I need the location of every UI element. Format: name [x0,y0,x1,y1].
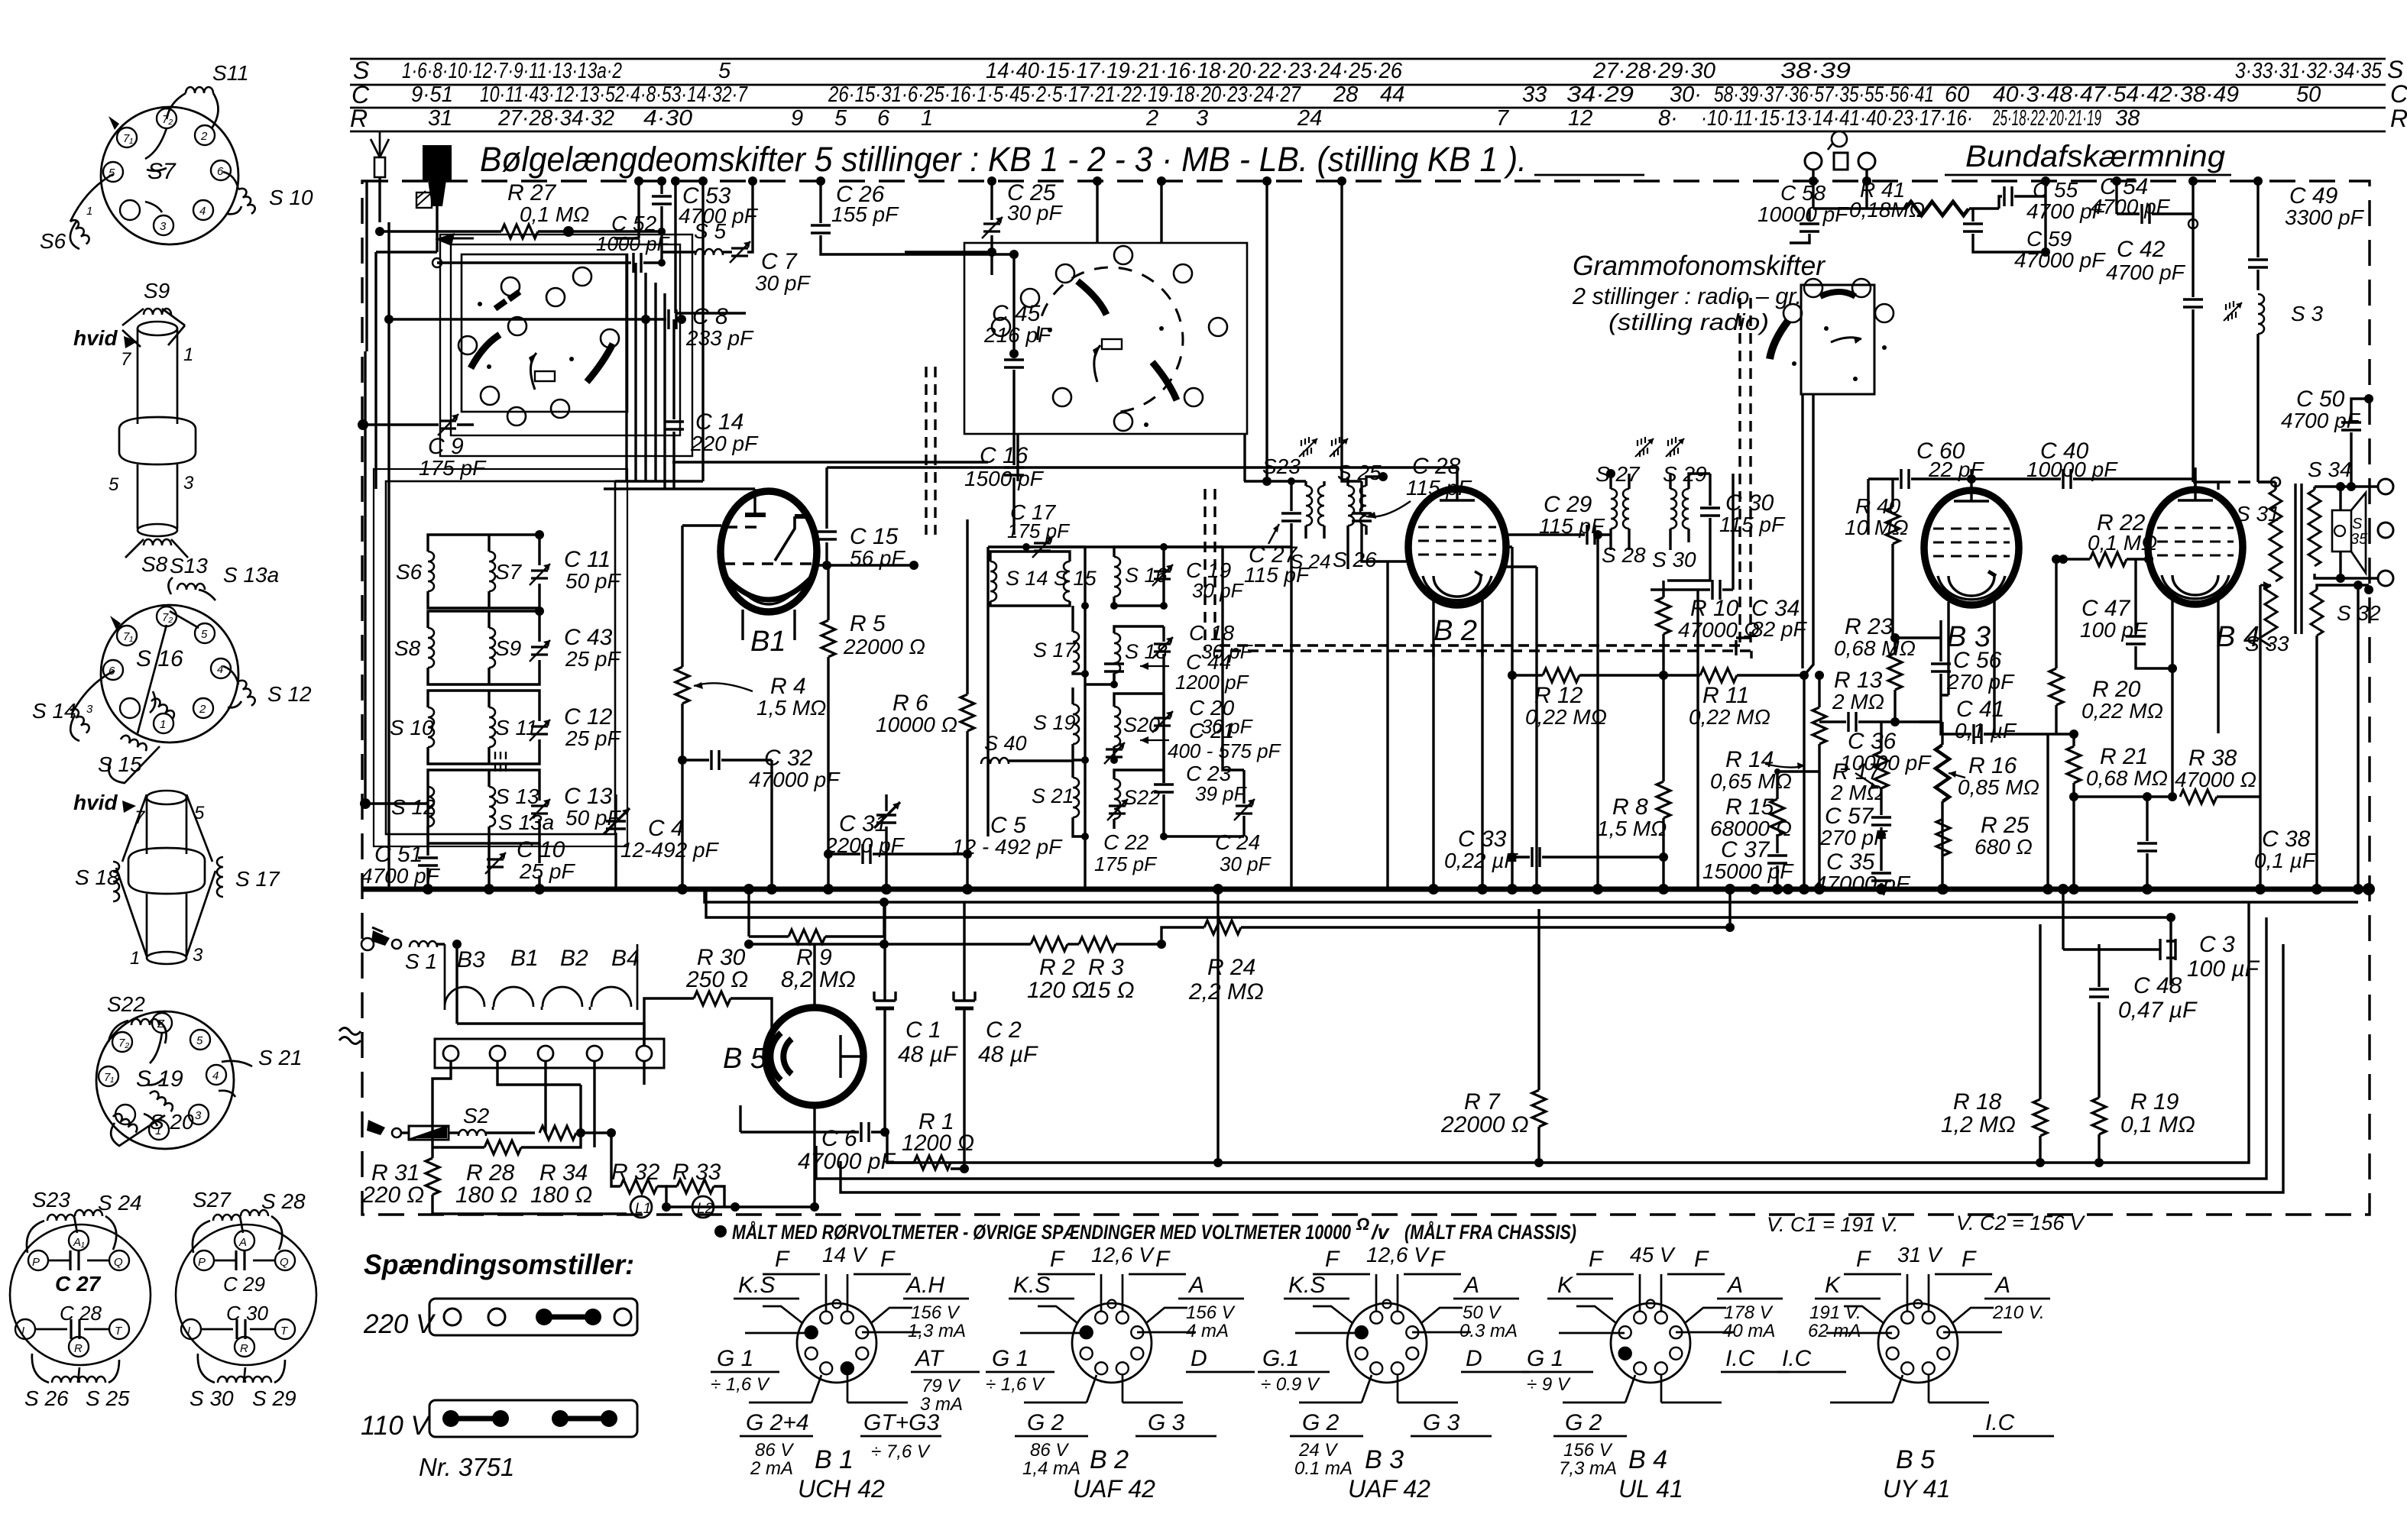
trimmer C25 [905,176,1063,257]
svg-text:210 V.: 210 V. [1992,1302,2045,1323]
svg-text:250 Ω: 250 Ω [685,967,748,992]
trimmer C13 [530,799,550,820]
resistor R9 [749,930,884,992]
svg-text:50 pF: 50 pF [565,569,621,593]
svg-text:110 V: 110 V [361,1411,432,1441]
tube B1 [604,489,817,658]
antenna [371,131,389,222]
capacitor C58 [1757,170,1849,243]
resistor R12 [1508,668,1700,729]
resistor R10 [1657,581,1760,680]
svg-text:C: C [2390,80,2407,108]
svg-text:9: 9 [791,106,803,131]
svg-text:216 pF: 216 pF [983,323,1052,347]
svg-text:175 pF: 175 pF [1094,852,1158,875]
svg-text:Spændingsomstiller:: Spændingsomstiller: [364,1249,634,1280]
capacitor C45 [914,250,1052,465]
TABLE [350,56,2407,132]
svg-text:UAF 42: UAF 42 [1073,1475,1155,1503]
resistor R23 [1834,614,1916,726]
svg-text:Bundafskærmning: Bundafskærmning [1965,140,2225,173]
capacitor C44 [1104,664,1124,671]
wire [1945,174,2231,176]
svg-text:100 µF: 100 µF [2187,956,2260,982]
wire [706,889,2171,917]
svg-text:38·39: 38·39 [1780,59,1851,83]
wires B2 anode [1434,547,1537,889]
resistor R31 [361,1147,627,1214]
svg-text:7₁: 7₁ [123,132,133,145]
svg-text:4700 pF: 4700 pF [2106,260,2186,284]
variable capacitor C4 [604,794,720,889]
svg-text:2 mA: 2 mA [750,1458,793,1479]
svg-text:S 19: S 19 [1033,711,1076,734]
svg-text:12 - 492 pF: 12 - 492 pF [952,835,1063,859]
svg-text:1: 1 [160,718,166,731]
socket B4 UL41 [1521,1243,1790,1503]
coil S8 [428,628,434,668]
svg-text:A.H: A.H [905,1273,944,1298]
tube B3 [1924,469,2019,734]
svg-text:22000 Ω: 22000 Ω [1440,1112,1529,1137]
svg-text:I.C: I.C [1985,1410,2015,1435]
svg-text:175 pF: 175 pF [1007,519,1071,542]
svg-text:F: F [1856,1247,1871,1272]
svg-text:S13: S13 [170,554,208,577]
svg-text:C 16: C 16 [980,443,1029,468]
resistor R5 [821,565,925,889]
svg-text:38: 38 [2115,106,2140,131]
svg-text:S 25: S 25 [86,1386,130,1410]
switch assembly 2 [964,243,1247,434]
svg-text:A: A [1187,1273,1204,1298]
svg-text:30 pF: 30 pF [1192,579,1245,602]
resistor R15 [1710,772,1792,853]
svg-text:0,1 MΩ: 0,1 MΩ [2120,1112,2195,1137]
svg-text:22000 Ω: 22000 Ω [843,635,925,658]
svg-text:K: K [1825,1273,1842,1298]
resistor R20 [2049,555,2163,734]
svg-text:B 2: B 2 [1090,1445,1129,1474]
svg-text:B 5: B 5 [723,1043,767,1075]
svg-text:175 pF: 175 pF [419,456,487,480]
svg-text:R: R [74,1342,83,1355]
svg-text:79 V: 79 V [922,1376,961,1396]
switch wafer S13/S16 [86,605,238,742]
svg-text:12: 12 [1568,106,1592,131]
capacitor C1 [874,902,958,1085]
svg-text:A: A [1463,1273,1479,1298]
svg-text:31 V: 31 V [1897,1243,1943,1267]
socket B1 UCH42 [711,1243,980,1503]
trimmer C43 [530,640,550,662]
svg-text:58·39·37·36·57·35·55·56·41: 58·39·37·36·57·35·55·56·41 [1714,82,1934,107]
svg-text:1: 1 [921,106,933,131]
svg-text:S 26: S 26 [1333,548,1377,571]
svg-text:S8: S8 [141,552,168,576]
svg-text:S 24: S 24 [98,1191,142,1215]
svg-text:2: 2 [199,703,206,716]
svg-text:2 MΩ: 2 MΩ [1830,781,1883,804]
IF transformer 1 S23/S24 [1244,455,1331,573]
potentiometer R14 [1710,747,1819,793]
svg-text:0,1 µF: 0,1 µF [2254,849,2317,872]
resistor R24 [1161,889,1730,1005]
capacitor C14 [664,319,759,489]
wire [705,889,2358,902]
coil S14 [32,671,115,741]
resistor R22 [2059,510,2157,566]
svg-text:6: 6 [877,106,890,131]
svg-text:B 3: B 3 [1365,1445,1404,1474]
svg-text:B4: B4 [611,946,640,971]
svg-text:3: 3 [86,703,93,716]
capacitor C37 [1702,837,1794,889]
capacitor C27 [48,1260,109,1262]
svg-text:C 3: C 3 [2199,932,2235,957]
svg-text:3: 3 [1196,106,1208,131]
svg-text:B3: B3 [457,947,485,972]
svg-text:G 2: G 2 [1027,1410,1064,1435]
capacitor C35 [1814,849,1911,895]
svg-text:R 18: R 18 [1953,1089,2002,1115]
svg-text:C 6: C 6 [821,1126,857,1151]
IF coil box 2 [981,500,1282,889]
trimmer C19 [1152,565,1173,586]
svg-text:F: F [1050,1247,1065,1272]
svg-text:S 5: S 5 [694,219,726,243]
svg-text:10000 Ω: 10000 Ω [876,713,957,736]
svg-text:3300 pF: 3300 pF [2285,205,2365,229]
svg-text:UAF 42: UAF 42 [1348,1475,1430,1503]
wire links box2 [992,181,1245,481]
svg-text:A: A [238,1236,247,1249]
svg-text:2: 2 [200,130,208,143]
svg-text:R 24: R 24 [1207,955,1255,980]
capacitor C31 [824,811,972,864]
coil S3 [2224,294,2323,482]
svg-text:0,1 µF: 0,1 µF [1955,719,2017,742]
svg-text:GT+G3: GT+G3 [863,1410,940,1435]
svg-text:C 58: C 58 [1780,181,1826,205]
svg-text:÷ 1,6 V: ÷ 1,6 V [711,1374,770,1395]
svg-text:S 14 S 15: S 14 S 15 [1006,567,1097,590]
svg-text:Grammofonomskifter: Grammofonomskifter [1573,250,1826,281]
resistor R6 [876,519,974,889]
svg-text:6: 6 [217,165,224,178]
svg-text:5: 5 [109,474,119,495]
svg-text:10000 pF: 10000 pF [2026,458,2118,481]
svg-text:Ω: Ω [1356,1215,1369,1234]
coil S40 [981,758,1009,764]
svg-text:47000 pF: 47000 pF [798,1149,896,1174]
svg-text:K: K [1557,1273,1574,1298]
svg-text:S7: S7 [495,560,523,584]
svg-text:C 24: C 24 [1215,830,1260,854]
svg-text:25 pF: 25 pF [565,726,621,750]
capacitor C48 [2089,944,2198,1023]
svg-text:C 28: C 28 [60,1302,102,1325]
coil S26/S25 [52,1377,79,1383]
svg-text:0,22 MΩ: 0,22 MΩ [2081,699,2163,723]
socket diagram C27/C28 [10,1188,151,1410]
capacitor C36 [1819,712,1942,775]
switch S2 [367,1104,535,1140]
former S9/S8 [73,279,196,576]
resistor R13 [1813,668,1884,889]
svg-text:R 32: R 32 [611,1160,660,1185]
svg-text:25·18·22·20·21·19: 25·18·22·20·21·19 [1992,106,2101,131]
svg-text:S2: S2 [463,1104,490,1127]
svg-text:S 40: S 40 [984,732,1027,755]
coil S30/S29 [218,1377,245,1383]
ground bus [362,887,2369,892]
svg-text:G 1: G 1 [992,1346,1029,1371]
svg-text:1·6·8·10·12·7·9·11·13·13a·2: 1·6·8·10·12·7·9·11·13·13a·2 [402,59,622,83]
filament winding B3 B1 B2 B4 [445,944,640,1010]
svg-text:P: P [198,1256,206,1269]
svg-text:÷ 1,6 V: ÷ 1,6 V [986,1374,1045,1395]
svg-text:10000 pF: 10000 pF [1757,202,1849,226]
svg-text:G 1: G 1 [717,1346,753,1371]
svg-text:S 28: S 28 [1602,543,1646,567]
secondary S34 [2308,458,2352,578]
resistor R30 [644,945,772,1046]
svg-text:S9: S9 [495,636,521,660]
capacitor C56 [1931,638,2015,695]
svg-text:191 V.: 191 V. [1809,1302,1861,1323]
svg-text:R 3: R 3 [1088,955,1124,980]
svg-text:÷ 0.9 V: ÷ 0.9 V [1261,1374,1320,1395]
svg-text:50: 50 [2296,82,2321,107]
capacitor C23 [1154,785,1174,792]
svg-text:86 V: 86 V [755,1440,794,1461]
svg-text:UL 41: UL 41 [1618,1475,1683,1503]
capacitor C26 [811,176,914,254]
wire [735,1105,815,1207]
svg-text:S 17: S 17 [1033,639,1077,662]
svg-text:50 V: 50 V [1463,1302,1502,1323]
tube B4 [2148,467,2260,797]
svg-text:0.3 mA: 0.3 mA [1459,1321,1518,1341]
svg-text:9·51: 9·51 [411,82,453,107]
svg-text:hvid: hvid [73,326,118,350]
resistor R11 [1689,668,1809,729]
svg-text:S 13: S 13 [495,785,539,808]
svg-text:R: R [2390,105,2407,132]
capacitor C6 [740,1122,896,1174]
socket B3 UAF42 [1258,1243,1530,1503]
svg-text:C 30: C 30 [226,1302,268,1325]
svg-text:P: P [32,1256,40,1269]
coil S12 [223,666,312,707]
svg-text:(MÅLT FRA CHASSIS): (MÅLT FRA CHASSIS) [1404,1220,1576,1244]
svg-text:47000 pF: 47000 pF [749,768,841,791]
svg-text:F: F [1325,1247,1340,1272]
resistor R3 [1067,937,1161,1003]
svg-text:2200 pF: 2200 pF [824,833,905,857]
svg-text:30 pF: 30 pF [755,271,811,295]
trimmer C11 [530,564,550,585]
svg-text:220 Ω: 220 Ω [361,1182,424,1208]
svg-text:G 2+4: G 2+4 [746,1410,809,1435]
coil S16 [1114,557,1120,597]
svg-text:7,3 mA: 7,3 mA [1559,1458,1617,1479]
svg-text:86 V: 86 V [1030,1440,1069,1461]
wire [457,944,644,1147]
svg-text:hvid: hvid [73,791,118,814]
capacitor C29 [1504,492,1611,545]
wire heater tap [749,889,884,937]
coil S5 [662,176,757,263]
capacitor C15 [815,467,918,570]
svg-text:Q: Q [280,1256,289,1269]
svg-text:R: R [350,105,368,132]
svg-text:7₁: 7₁ [123,630,133,643]
transformer core [2295,484,2302,634]
capacitor C9 [358,414,487,480]
oscillator coil box [374,469,627,846]
capacitor C8 [384,304,754,350]
svg-text:1: 1 [183,345,193,365]
svg-text:5: 5 [196,1034,203,1047]
svg-text:4700 pF: 4700 pF [2091,195,2171,218]
coil S14/S15 box [990,561,996,601]
coil S6 [428,552,434,591]
svg-text:26·15·31·6·25·16·1·5·45·2·5·17: 26·15·31·6·25·16·1·5·45·2·5·17·21·22·19·… [828,82,1301,107]
svg-text:1: 1 [86,205,92,218]
svg-text:1,5 MΩ: 1,5 MΩ [1597,817,1667,840]
svg-text:B 4: B 4 [1628,1445,1667,1474]
svg-text:2 MΩ: 2 MΩ [1832,690,1884,713]
svg-text:8·: 8· [1658,106,1678,131]
svg-text:270 pF: 270 pF [1946,670,2015,694]
coil S6 [40,174,113,253]
svg-text:(stilling radio): (stilling radio) [1608,309,1769,335]
trimmer C12 [530,720,550,741]
svg-text:I: I [21,1325,24,1338]
svg-text:47000 Ω: 47000 Ω [2175,768,2256,791]
svg-text:7: 7 [121,349,132,370]
svg-text:3: 3 [160,220,167,233]
switch wafer S19/S22 [96,1011,234,1149]
svg-text:680 Ω: 680 Ω [1975,835,2033,859]
capacitor C40 [1971,438,2195,489]
svg-text:100 pF: 100 pF [2080,618,2148,642]
svg-text:24 V: 24 V [1298,1440,1338,1461]
resistor R41 [1813,170,1999,222]
trimmer C24 [1234,799,1255,820]
svg-text:G 2: G 2 [1302,1410,1340,1435]
svg-text:5: 5 [718,59,731,83]
svg-text:B 1: B 1 [815,1445,854,1474]
svg-text:B1: B1 [510,946,539,971]
svg-text:R 40: R 40 [1855,494,1901,518]
svg-text:S: S [2352,516,2363,532]
svg-text:2 stillinger : radio – gr.: 2 stillinger : radio – gr. [1572,283,1802,309]
resistor R4 [675,526,826,760]
svg-text:R 7: R 7 [1464,1089,1501,1115]
svg-text:R 19: R 19 [2130,1089,2179,1115]
svg-text:UY 41: UY 41 [1883,1475,1950,1503]
svg-text:S 28: S 28 [261,1189,306,1213]
svg-text:3: 3 [183,473,194,493]
svg-text:2: 2 [1145,106,1158,131]
svg-text:S 1: S 1 [405,950,437,973]
socket diagram C29/C30 [176,1188,316,1410]
capacitor C57 [1819,804,1891,871]
svg-text:V. C1 = 191 V.: V. C1 = 191 V. [1767,1213,1898,1236]
svg-text:F: F [1589,1247,1604,1272]
gram terminals [1805,131,1875,170]
capacitor C32 [678,746,841,889]
svg-text:34·29: 34·29 [1566,82,1634,107]
svg-text:S 21: S 21 [258,1046,303,1069]
svg-text:S 12: S 12 [267,682,312,706]
resistor R40 [1845,479,1909,638]
svg-text:3: 3 [195,1109,202,1122]
svg-text:F: F [1962,1247,1977,1272]
svg-text:24: 24 [1297,106,1322,131]
wire mid verticals to bus [1598,474,2048,889]
svg-text:31: 31 [428,106,452,131]
svg-text:Nr. 3751: Nr. 3751 [419,1453,514,1481]
svg-text:25 pF: 25 pF [565,647,621,671]
wire left verticals [365,181,437,889]
svg-text:0,47 µF: 0,47 µF [2118,998,2198,1023]
wires B3 [1895,620,1994,734]
svg-text:K.S: K.S [1288,1273,1325,1298]
svg-text:10 MΩ: 10 MΩ [1845,516,1909,539]
coil S20 [1114,707,1120,746]
coil S15 [98,734,160,783]
svg-text:1,2 MΩ: 1,2 MΩ [1941,1112,2016,1137]
svg-text:48 µF: 48 µF [898,1042,958,1067]
tube B2 [1408,467,1506,657]
AC mains symbol [339,1028,361,1044]
svg-text:156 V: 156 V [911,1302,961,1323]
coil S21 [219,1046,303,1097]
resistor R7 [1440,909,1546,1163]
shielded plug [416,145,474,252]
svg-text:14 V: 14 V [822,1243,868,1267]
svg-text:178 V: 178 V [1724,1302,1774,1323]
secondary S32 [2311,585,2381,889]
svg-text:A₁: A₁ [73,1236,85,1249]
resistor R38 [2069,746,2260,804]
svg-text:8,2 MΩ: 8,2 MΩ [781,967,856,992]
svg-text:V. C2 = 156 V: V. C2 = 156 V [1956,1212,2086,1234]
svg-text:K.S: K.S [1013,1273,1050,1298]
coil S23/S24 [47,1215,75,1221]
svg-text:7: 7 [1496,106,1510,131]
capacitor C53 [652,176,759,263]
svg-text:S 30: S 30 [1652,548,1696,571]
coil S13 [168,554,279,600]
wire C42 line [2106,176,2218,482]
svg-text:115 pF: 115 pF [1719,513,1786,536]
capacitor C47 [2080,559,2177,673]
svg-text:S 21: S 21 [1032,785,1074,807]
Spaendingsomstiller [361,1249,637,1481]
svg-text:4: 4 [199,205,206,218]
svg-text:C 59: C 59 [2026,227,2072,251]
capacitor C28 [1342,454,1472,561]
wire dashed screen [926,367,935,535]
potentiometer R17 [1830,722,1888,815]
svg-text:S: S [2387,56,2403,83]
svg-text:25 pF: 25 pF [519,859,575,883]
